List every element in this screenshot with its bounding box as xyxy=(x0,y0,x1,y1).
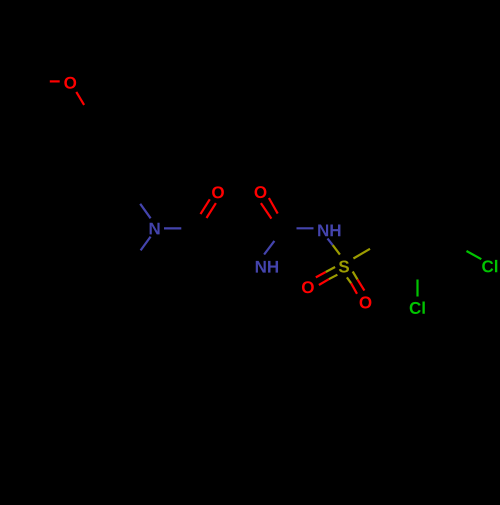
atom O2 label "O" xyxy=(212,186,224,198)
double bond C1=O2 line a xyxy=(201,199,210,214)
double bond S=O5 line b oxygen half xyxy=(358,280,365,291)
double bond S=O5 line b sulfur half xyxy=(353,272,358,280)
bond Cl2-aryl xyxy=(416,280,418,297)
double bond C1=O2 line b xyxy=(207,203,216,218)
double bond S=O4 line b oxygen half xyxy=(319,279,329,285)
bond O1-ring xyxy=(76,92,84,105)
bond O1-CH3 (methoxy) xyxy=(50,80,60,82)
bond NH2-S sulfur half xyxy=(333,245,340,255)
bond N1-C upper-left xyxy=(140,204,150,219)
bond N1-C1 carbonyl xyxy=(164,227,181,229)
double bond C2=O3 line a xyxy=(269,198,278,214)
atom NH2 label "NH" xyxy=(318,225,340,237)
atom O4 label "O" xyxy=(302,281,314,293)
bond Cl1-aryl xyxy=(467,251,482,259)
double bond S=O5 line a oxygen half xyxy=(351,283,357,294)
atom O5 label "O" xyxy=(360,296,372,308)
double bond S=O4 line b sulfur half xyxy=(329,275,338,280)
double bond S=O4 line a oxygen half xyxy=(316,272,326,277)
bond S-aryl xyxy=(353,249,370,259)
bond NH2-C2 xyxy=(297,227,314,229)
atom Cl2 label "Cl" xyxy=(410,301,425,313)
double bond C2=O3 line b xyxy=(261,203,272,219)
bond NH2-S blue half xyxy=(328,239,333,246)
double bond S=O4 line a sulfur half xyxy=(326,267,335,272)
double bond S=O5 line a sulfur half xyxy=(347,277,351,283)
atom N1 label "N" xyxy=(150,223,160,235)
atom NH1 label "NH" xyxy=(256,261,278,273)
bond N1-CH3 lower-left xyxy=(141,237,151,251)
atom S1 label "S" xyxy=(339,261,349,273)
atom O3 label "O" xyxy=(255,186,267,198)
bond NH1-C2 xyxy=(264,241,274,255)
atom O1 label "O" xyxy=(64,77,76,89)
atom Cl1 label "Cl" xyxy=(482,260,497,272)
